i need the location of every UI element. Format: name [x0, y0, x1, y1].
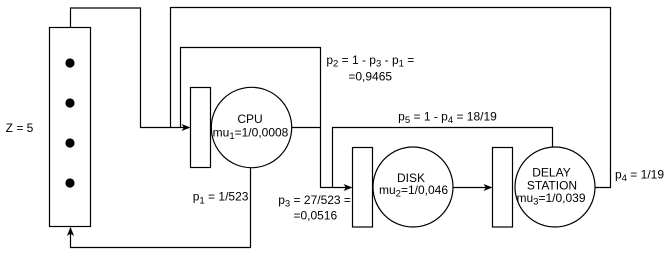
svg-text:Z = 5: Z = 5	[6, 121, 34, 135]
svg-text:=0,0516: =0,0516	[293, 209, 337, 223]
svg-text:CPU: CPU	[237, 112, 262, 126]
svg-text:=0,9465: =0,9465	[348, 70, 392, 84]
